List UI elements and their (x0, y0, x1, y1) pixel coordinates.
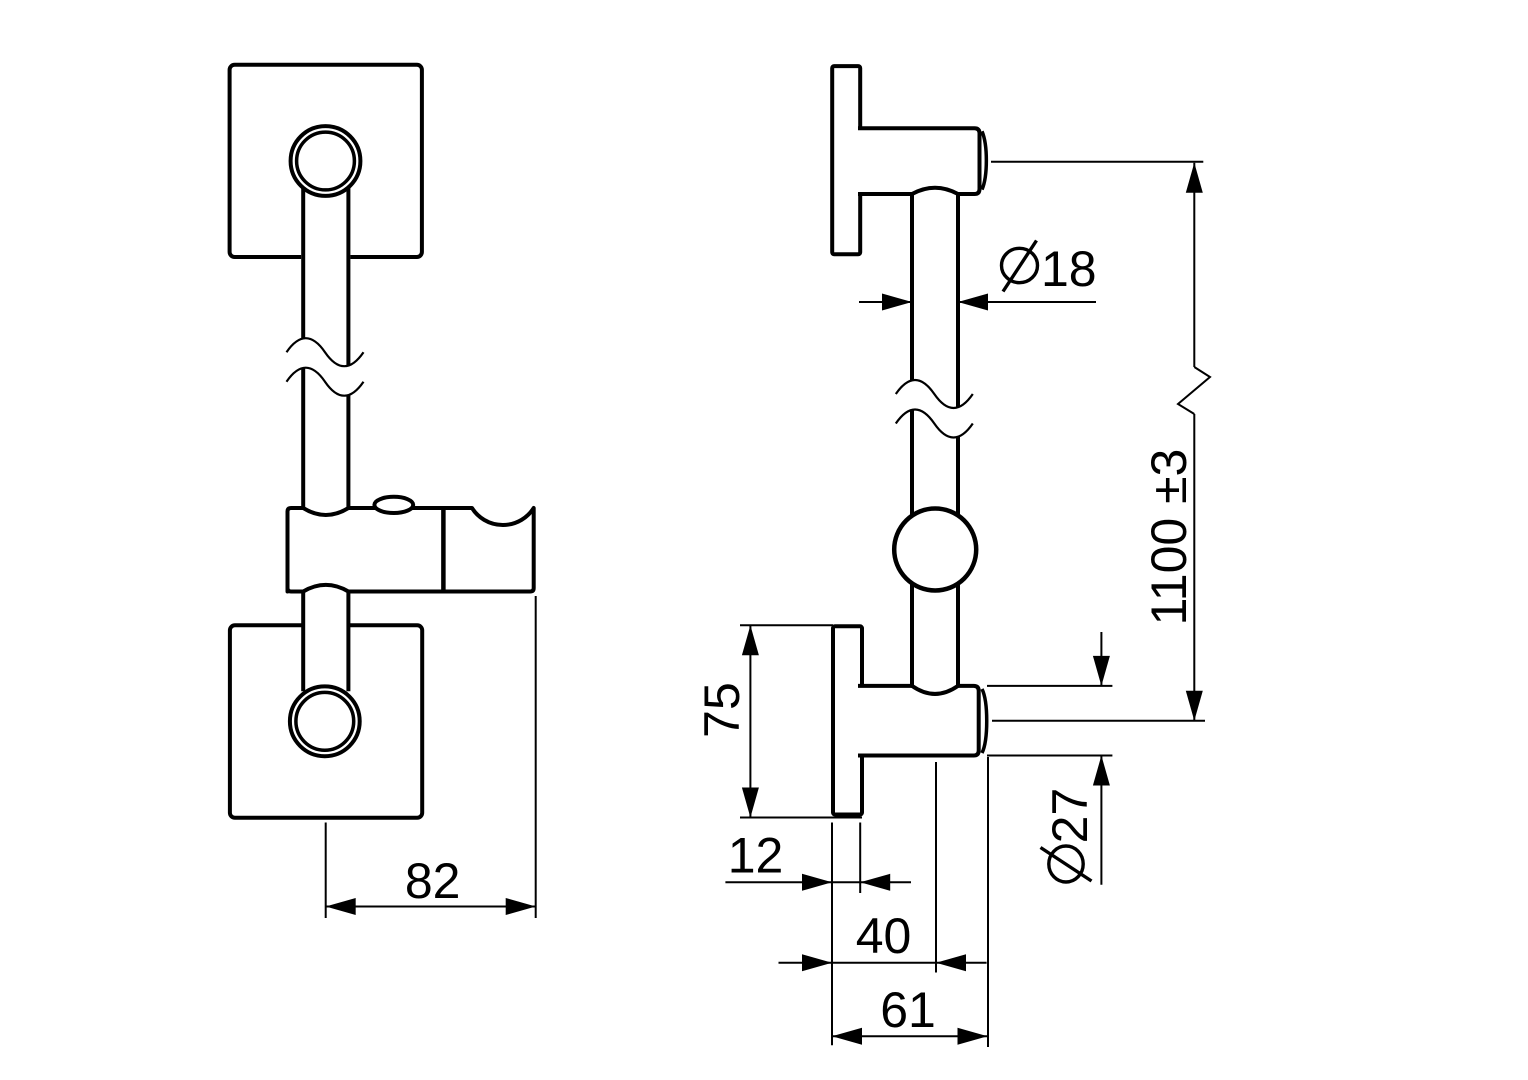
dimension 75: dimension line (749, 625, 751, 817)
holder release button (top lens) (374, 497, 413, 513)
dimension D18: right arrowhead (958, 294, 988, 311)
svg-text:40: 40 (856, 908, 912, 964)
svg-text:75: 75 (694, 682, 750, 738)
dimension 82: dimension line (326, 906, 536, 908)
slide bar middle segment (front) (301, 368, 350, 515)
svg-text:27: 27 (1042, 788, 1098, 844)
dimension 1100: bottom arrowhead (1186, 691, 1203, 721)
svg-text:82: 82 (405, 853, 461, 909)
bottom wall plate (side) (833, 626, 862, 814)
dimension 75: top extension line (740, 624, 833, 626)
dimension D27: upper arrowhead (1093, 656, 1110, 686)
dimension 1100: bottom extension line (992, 720, 1205, 722)
shower-head holder block (front) (288, 508, 534, 592)
dimension 40: extension line (bar centre) (935, 762, 937, 973)
svg-text:61: 61 (880, 982, 936, 1038)
dimension 82: right arrowhead (506, 898, 536, 915)
bottom arm end cap arc (982, 689, 987, 753)
dimension 1100: top arrowhead (1186, 163, 1203, 193)
dimension 12: left extension line (wall face) (831, 823, 833, 1046)
holder pivot ball (side) (894, 509, 976, 591)
dimension 12: right extension line (plate face) (859, 823, 861, 894)
dimension 82: left arrowhead (326, 898, 356, 915)
slide bar lower segment with dome collar (front) (303, 585, 348, 700)
dimension 1100: top extension line (991, 161, 1203, 163)
bottom plate collar ring (inner) (296, 692, 354, 750)
dimension D27: lower arrow line (1100, 756, 1102, 885)
top mounting arm (side cylinder) (858, 128, 980, 194)
dimension 61: left arrowhead (832, 1028, 862, 1045)
dimension D27: upper arrow line (1100, 632, 1102, 686)
dimension 82: extension line from holder edge (535, 596, 537, 918)
dimension 61: dimension line (832, 1035, 988, 1037)
slide bar lower segment with bottom dome (side) (912, 410, 958, 694)
dimension 1100: upper dimension line (1193, 163, 1195, 367)
dimension 75: bottom arrowhead (742, 788, 759, 818)
bottom plate collar ring (outer) (290, 686, 360, 756)
dimension 75: top arrowhead (742, 625, 759, 655)
dimension D27: lower arrowhead (1093, 756, 1110, 786)
slide bar upper segment with dome (side) (912, 188, 958, 407)
dimension D18: value label (1002, 248, 1038, 282)
bottom mounting arm (side cylinder) (858, 686, 979, 756)
dimension 82: extension line from plate centre (325, 823, 327, 919)
top plate collar ring (inner) (297, 132, 355, 190)
dimension D18: right tail line (958, 301, 1096, 303)
top wall plate (side) (832, 66, 860, 254)
dimension 1100: break zigzag (1178, 367, 1210, 414)
dimension D18: left tail line (859, 301, 912, 303)
top wall plate (front, rounded square) (230, 65, 422, 257)
dimension 61: right extension line (arm end) (987, 757, 989, 1047)
dimension 61: right arrowhead (958, 1028, 988, 1045)
dimension D27: value label (1049, 846, 1083, 882)
dimension 40: right arrowhead (936, 954, 966, 971)
top arm end cap arc (982, 131, 986, 189)
dimension 12: right arrowhead (860, 874, 890, 891)
bar break symbol (front view, two waves) (287, 338, 364, 396)
dimension 12: dimension line (725, 881, 911, 883)
svg-text:1100 ±3: 1100 ±3 (1141, 449, 1197, 626)
dimension 1100: lower dimension line (1193, 414, 1195, 721)
bottom wall plate (front, rounded square) (230, 625, 422, 818)
dimension 40: dimension line (779, 962, 987, 964)
bar break symbol (side view, two waves) (896, 380, 973, 438)
dimension D27: lower extension line (987, 755, 1112, 757)
dimension D18: left arrowhead (882, 294, 912, 311)
dimension 75: bottom extension line (740, 817, 862, 819)
svg-text:12: 12 (728, 828, 784, 884)
holder block divider line (441, 508, 446, 592)
dimension 40: left arrowhead (802, 954, 832, 971)
dimension D27: upper extension line (987, 685, 1112, 687)
slide bar upper segment (front) (301, 165, 350, 366)
dimension 12: left arrowhead (802, 874, 832, 891)
svg-text:18: 18 (1041, 241, 1097, 297)
top plate collar ring (outer) (291, 126, 361, 196)
